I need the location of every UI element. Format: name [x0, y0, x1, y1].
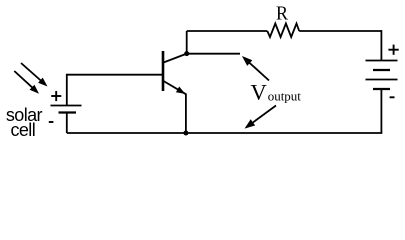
wire solar cell negative lead — [66, 113, 68, 134]
wire collector node stub — [187, 53, 240, 55]
wire battery bottom lead — [380, 89, 382, 133]
svg-text:output: output — [268, 89, 302, 104]
node label Voutput — [251, 79, 302, 104]
svg-text:R: R — [276, 2, 288, 24]
junction dot emitter node — [183, 131, 188, 136]
wire solar cell positive lead — [66, 74, 68, 106]
label solar cell — [6, 105, 43, 140]
solar cell plus polarity mark — [51, 91, 61, 101]
wire collector node to top rail — [186, 31, 188, 54]
Voutput arrow upper — [242, 56, 269, 81]
solar cell battery symbol — [51, 106, 82, 113]
emitter arrowhead — [176, 87, 185, 94]
light ray arrow 2 — [14, 71, 39, 94]
solar cell minus polarity mark — [49, 121, 54, 123]
wire top rail right segment — [299, 30, 381, 32]
wire top rail left segment — [187, 30, 268, 32]
resistor R — [267, 24, 299, 38]
wire bottom rail — [67, 132, 383, 134]
Voutput arrow lower — [245, 106, 277, 129]
emitter lead — [164, 81, 186, 94]
battery plus polarity mark — [388, 45, 398, 55]
collector lead — [164, 54, 187, 63]
light ray arrow 1 — [21, 63, 48, 87]
wire emitter to bottom rail — [185, 94, 187, 134]
svg-text:cell: cell — [10, 120, 35, 140]
svg-text:V: V — [251, 79, 267, 104]
battery minus polarity mark — [390, 96, 395, 98]
transistor Q1 — [163, 51, 187, 94]
base bar — [162, 51, 165, 91]
wire battery top lead — [380, 30, 382, 60]
wire base lead — [67, 74, 163, 76]
battery V1 — [366, 61, 398, 90]
junction dot collector node — [184, 51, 189, 56]
